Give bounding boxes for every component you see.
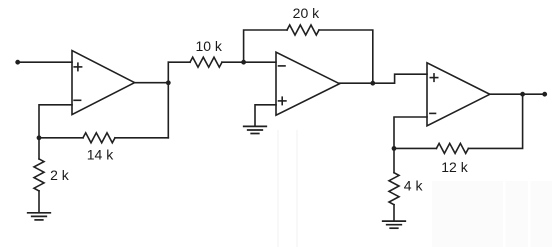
faint table shading bottom-right xyxy=(277,130,552,247)
svg-text:12 k: 12 k xyxy=(441,159,468,175)
node C junction U2 inverting input xyxy=(241,60,246,65)
node A junction xyxy=(37,135,42,140)
node D junction U2 output xyxy=(370,81,375,86)
wire Vin to U1 noninverting input xyxy=(18,61,72,63)
svg-text:14 k: 14 k xyxy=(87,147,114,163)
node B junction U1 output xyxy=(166,80,171,85)
node E junction xyxy=(392,146,397,151)
node F junction U3 output xyxy=(520,92,525,97)
wire U2 output xyxy=(340,82,373,84)
resistor R2 14 k feedback of U1 xyxy=(39,133,168,143)
resistor R5 4 k xyxy=(389,148,399,221)
node Vout output terminal xyxy=(542,92,547,97)
resistor R1 2 k xyxy=(34,138,44,213)
wire U1 inverting input to node A xyxy=(39,105,72,138)
resistor R4 20 k feedback of U2 xyxy=(244,25,373,83)
svg-text:20 k: 20 k xyxy=(293,5,320,21)
ground below R1 xyxy=(28,213,51,220)
ground at U2 noninverting input xyxy=(244,126,267,133)
svg-text:10 k: 10 k xyxy=(195,38,222,54)
wire U2 noninverting input to ground xyxy=(255,105,276,126)
op-amp U1 xyxy=(72,51,135,115)
op-amp U2 xyxy=(276,52,340,115)
resistor R3 10 k xyxy=(168,57,243,67)
node Vin input terminal xyxy=(15,60,20,65)
resistor R6 12 k feedback of U3 xyxy=(394,94,523,153)
wire U1 output xyxy=(135,82,169,84)
wire node D to U3 noninverting input xyxy=(373,74,427,83)
svg-text:2 k: 2 k xyxy=(50,167,70,183)
svg-text:4 k: 4 k xyxy=(404,178,424,194)
wire U1 output node vertical xyxy=(167,62,169,138)
wire node C to U2 inverting input xyxy=(244,61,276,63)
ground below R5 xyxy=(383,221,406,228)
wire U3 output xyxy=(490,93,545,95)
wire U3 inverting input to node E xyxy=(394,117,427,148)
op-amp U3 xyxy=(427,63,490,126)
